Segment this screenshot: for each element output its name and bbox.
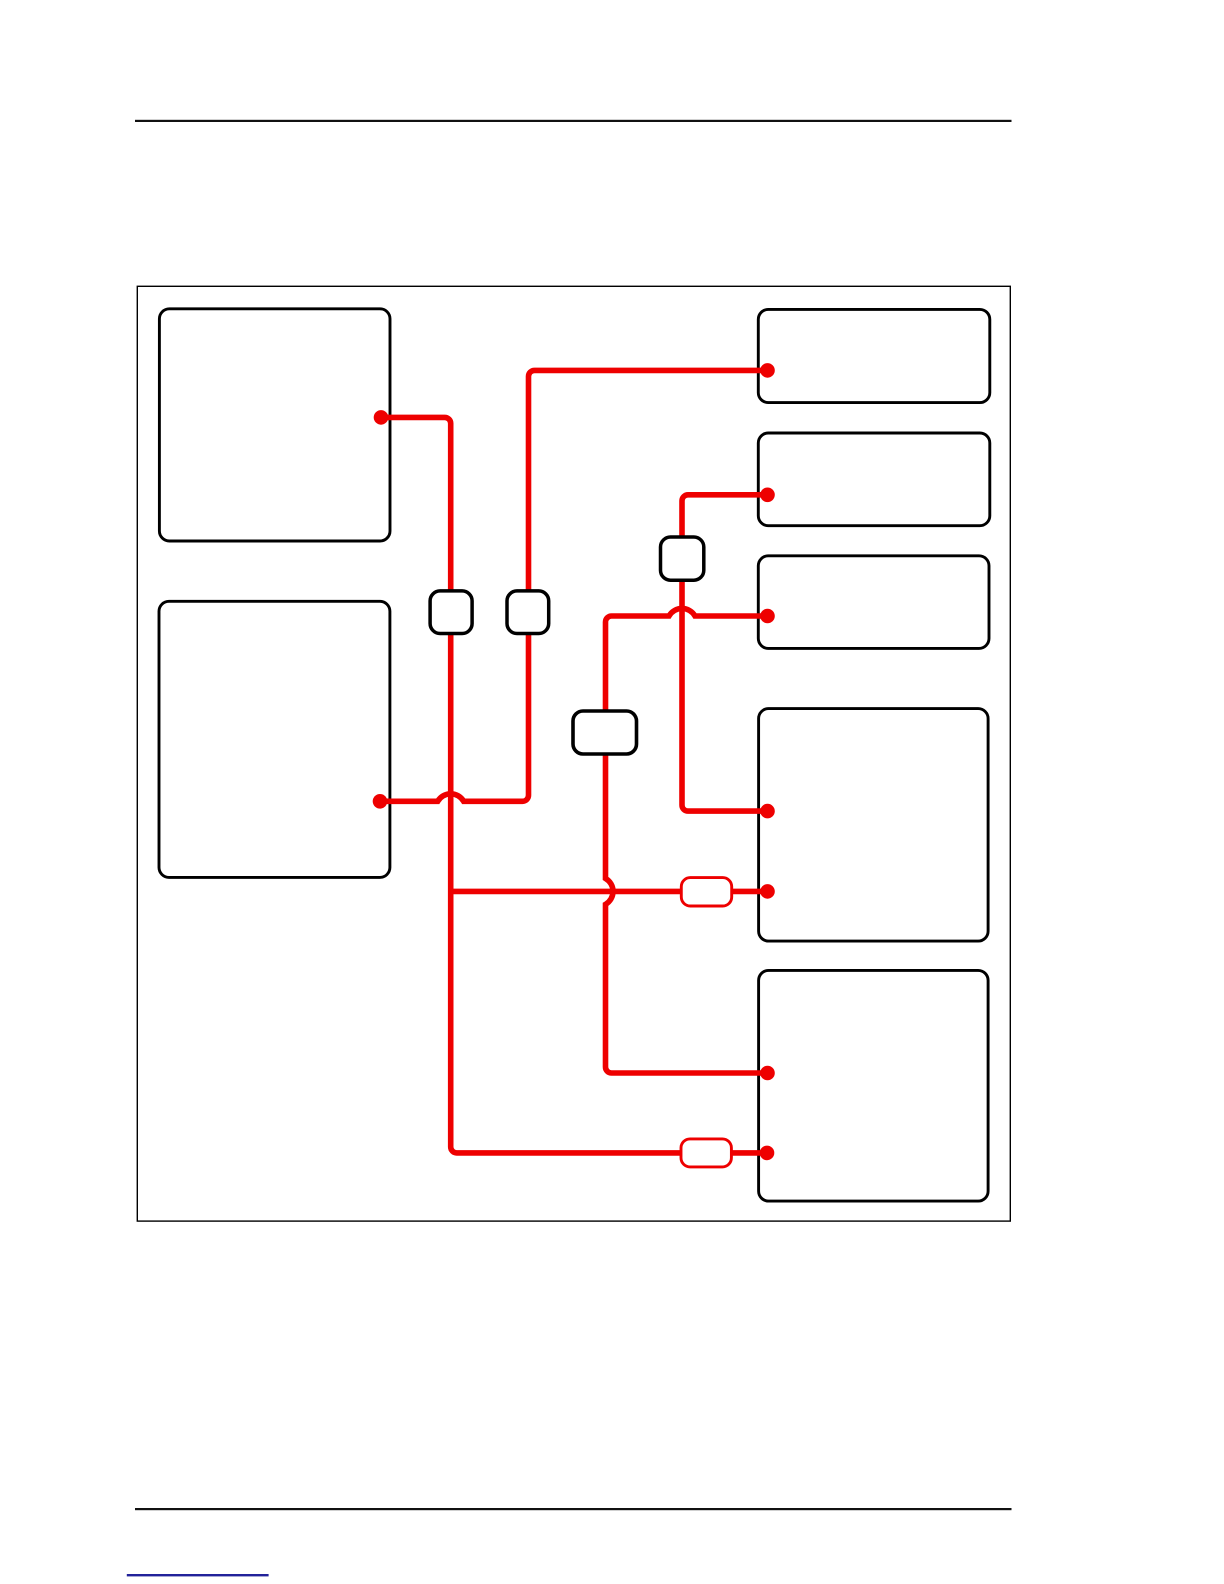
- box B3 right row1: [758, 309, 990, 402]
- box B5 right row3: [758, 556, 989, 649]
- node dot B6 upper: [760, 804, 775, 819]
- node dot B4: [760, 488, 775, 503]
- wire W1: B1 right to B7 lower pin via vertical x=450.7: [381, 417, 767, 1153]
- box B4 right row2: [758, 433, 990, 526]
- footer link underline: [127, 1574, 269, 1576]
- connector S1 on W1: [430, 591, 472, 634]
- figure frame: [137, 286, 1010, 1221]
- footer rule: [135, 1508, 1012, 1510]
- wire W3: B4 pin to B6 upper pin via vertical x=682: [682, 495, 768, 811]
- wire W5: B5 pin to B7 upper pin, hop over W4, via vertical x=605.5: [606, 608, 768, 1073]
- connector C1 on W5: [573, 711, 637, 754]
- inline connector P1 on W4: [681, 878, 731, 906]
- node dot B6 lower: [760, 884, 775, 899]
- box B1 top-left: [159, 309, 390, 541]
- box B7 right row5: [759, 970, 989, 1201]
- connector S3 on W3: [661, 537, 704, 580]
- node dot B7 upper: [760, 1066, 775, 1081]
- inline connector P2 on W1: [681, 1139, 731, 1167]
- header rule: [135, 120, 1012, 122]
- box B2 bottom-left: [159, 601, 390, 877]
- node dot B1: [374, 410, 389, 425]
- node dot B2: [373, 794, 388, 809]
- node dot B3: [760, 363, 775, 378]
- wire W2: B2 right to B3 pin, hop over W1, via vertical x=528.5: [380, 370, 768, 801]
- connector S2 on W2: [507, 591, 549, 634]
- node dot B7 lower: [760, 1146, 775, 1161]
- wire W4: tee from W1 to B6 lower pin: [451, 889, 768, 895]
- box B6 right row4: [759, 709, 989, 942]
- node dot B5: [760, 609, 775, 624]
